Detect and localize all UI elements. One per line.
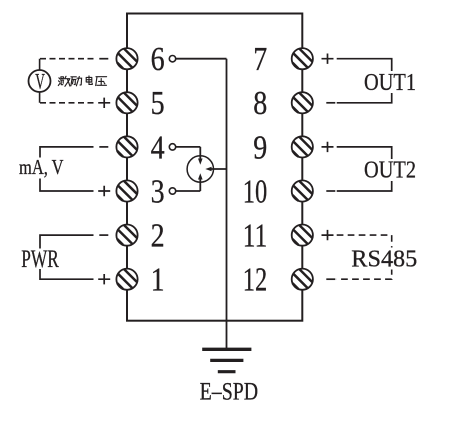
svg-text:3: 3 <box>151 173 165 210</box>
svg-text:6: 6 <box>151 41 165 78</box>
svg-text:OUT2: OUT2 <box>364 157 416 184</box>
svg-text:2: 2 <box>151 218 165 255</box>
svg-text:V: V <box>35 69 45 94</box>
svg-text:E–SPD: E–SPD <box>200 379 259 406</box>
svg-text:RS485: RS485 <box>351 246 417 273</box>
svg-text:1: 1 <box>151 262 165 299</box>
svg-text:5: 5 <box>151 85 165 122</box>
svg-text:OUT1: OUT1 <box>364 69 416 96</box>
svg-text:PWR: PWR <box>21 246 59 273</box>
svg-text:mA, V: mA, V <box>19 155 64 179</box>
svg-text:4: 4 <box>151 129 165 166</box>
svg-text:11: 11 <box>243 218 268 255</box>
svg-text:8: 8 <box>253 85 267 122</box>
svg-text:9: 9 <box>253 129 267 166</box>
svg-text:12: 12 <box>243 262 268 299</box>
svg-text:7: 7 <box>253 41 267 78</box>
svg-text:10: 10 <box>243 173 268 210</box>
